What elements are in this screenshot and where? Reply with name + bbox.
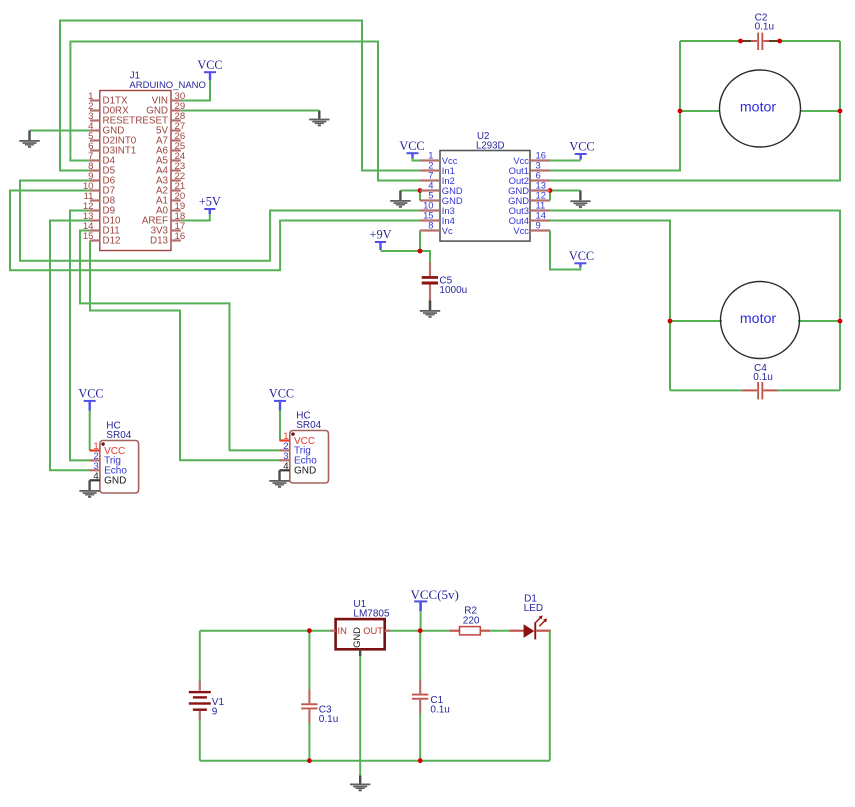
motor M2 — [721, 282, 800, 359]
wire VCC to sensor2 pin1 — [279, 410, 281, 441]
svg-text:VCC: VCC — [197, 58, 222, 72]
svg-text:VCC(5v): VCC(5v) — [411, 587, 459, 602]
ground at Arduino pin29 — [309, 111, 329, 127]
junction C1 bottom — [418, 758, 423, 763]
connector J1 ARDUINO_NANO — [100, 71, 206, 251]
wire Out2 to motor1 right rail — [549, 41, 840, 181]
wire Out4 to motor2 left rail — [549, 221, 670, 391]
svg-text:VCC: VCC — [399, 139, 424, 153]
J1 pin numbers — [83, 91, 186, 242]
svg-text:D12: D12 — [103, 236, 121, 247]
J1 pin labels — [103, 96, 169, 247]
wire Out3 to motor2 right rail — [549, 211, 840, 391]
capacitor C5 1000u polarized — [422, 262, 468, 301]
svg-text:16: 16 — [175, 231, 186, 242]
junction motor2 left — [668, 319, 673, 324]
wire D9 to Trig of first HC-SR04 — [70, 211, 90, 461]
ground at U1 GND — [350, 784, 370, 792]
wire D7 to In4 net — [10, 191, 421, 271]
junction motor2 right — [838, 319, 843, 324]
capacitor C4 0.1u — [742, 363, 778, 399]
wire power bottom rail — [200, 760, 550, 762]
capacitor C3 0.1u — [301, 631, 338, 761]
VCC supply at L293D pin1 — [399, 139, 424, 159]
wire motor2 right tap — [798, 320, 840, 322]
wire D1 cathode down to bottom rail — [549, 631, 551, 761]
wire VIN pin30 to VCC — [181, 79, 210, 101]
svg-text:IN: IN — [338, 625, 347, 636]
wire D6 to In3 net — [20, 181, 421, 261]
wire D5 to In1 net — [60, 21, 421, 171]
junction motor1 right — [838, 109, 843, 114]
svg-text:ARDUINO_NANO: ARDUINO_NANO — [129, 80, 206, 91]
wire U1 OUT to VCC node — [391, 630, 451, 632]
wire power left rail — [199, 631, 201, 761]
wire node to C5 — [420, 251, 430, 262]
J1 pin stubs — [90, 101, 181, 241]
wire VCC to L293D pin1 — [413, 158, 422, 161]
svg-text:220: 220 — [463, 615, 480, 626]
junction motor1 left — [678, 109, 683, 114]
VCC supply at VIN — [197, 58, 222, 80]
VCC supply at second HC-SR04 — [269, 387, 294, 411]
wire L293D GND pins 4,5 to ground — [400, 191, 420, 201]
svg-text:4: 4 — [283, 461, 289, 472]
wire R2 to D1 — [490, 630, 510, 632]
svg-text:L293D: L293D — [476, 141, 505, 152]
svg-text:Vcc: Vcc — [513, 225, 529, 236]
supply VCC(5v) — [411, 587, 459, 612]
U2 pin labels — [442, 155, 529, 236]
+9V supply — [370, 228, 392, 250]
wire D10 to Echo of first HC-SR04 — [50, 221, 90, 471]
svg-text:+9V: +9V — [370, 228, 392, 242]
svg-text:SR04: SR04 — [106, 430, 131, 441]
wire D4 to In2 net — [70, 42, 421, 181]
svg-text:0.1u: 0.1u — [755, 22, 774, 33]
junction L293D pins 4-5 GND — [418, 188, 423, 193]
svg-text:motor: motor — [740, 99, 777, 115]
svg-text:Vc: Vc — [442, 225, 453, 236]
svg-text:LED: LED — [524, 603, 543, 614]
wire Arduino GND pin4 to ground — [30, 130, 91, 132]
wire +9V to node — [381, 250, 421, 252]
svg-text:OUT: OUT — [363, 625, 383, 636]
wire motor1 top with C2 — [680, 40, 840, 42]
svg-text:+5V: +5V — [199, 195, 221, 209]
VCC supply at first HC-SR04 — [78, 387, 103, 411]
svg-text:VCC: VCC — [78, 387, 103, 401]
+5V supply — [199, 195, 221, 214]
wire motor1 left tap — [680, 110, 720, 112]
junction +9V node — [418, 249, 423, 254]
regulator U1 LM7805 — [330, 599, 391, 649]
svg-text:9: 9 — [212, 706, 218, 717]
wire L293D pin16 to VCC — [549, 160, 581, 162]
wire L293D GND pins 13,12 to ground — [550, 191, 580, 201]
svg-text:SR04: SR04 — [296, 420, 321, 431]
svg-text:4: 4 — [93, 471, 99, 482]
svg-text:GND: GND — [294, 466, 316, 477]
wire power top rail — [200, 630, 330, 632]
svg-text:GND: GND — [351, 627, 362, 648]
VCC supply at L293D pin9 — [569, 249, 594, 267]
ground at Arduino pin4 — [19, 131, 39, 148]
IC U2 L293D — [440, 131, 530, 241]
svg-text:1000u: 1000u — [439, 285, 467, 296]
svg-text:VCC: VCC — [569, 249, 594, 263]
junction C3 bottom — [307, 758, 312, 763]
ground at L293D right GND — [570, 191, 590, 209]
ground at sensor1 GND — [79, 480, 99, 498]
wire Out1 to motor1 left rail — [549, 41, 680, 171]
svg-text:LM7805: LM7805 — [353, 609, 390, 620]
sensor HC-SR04 #1 — [90, 420, 139, 493]
wire D12 to Echo of second HC-SR04 — [90, 241, 281, 461]
svg-text:GND: GND — [104, 476, 126, 487]
wire L293D Vc pin8 down to +9V node — [419, 231, 421, 252]
battery V1 9V — [189, 681, 225, 720]
capacitor C1 0.1u — [412, 631, 450, 761]
junction C1 top — [418, 628, 423, 633]
svg-text:15: 15 — [83, 231, 94, 242]
ground at C5 — [420, 301, 440, 318]
svg-text:0.1u: 0.1u — [430, 704, 449, 715]
svg-text:D13: D13 — [150, 236, 169, 247]
junction C2 right — [777, 39, 782, 44]
wire AREF pin18 to +5V — [181, 212, 210, 221]
ground at L293D left GND — [390, 191, 410, 208]
svg-text:motor: motor — [740, 311, 777, 327]
wire motor2 bottom with C4 — [670, 389, 840, 391]
LED D1 — [510, 594, 551, 640]
wire Arduino GND pin29 to ground — [181, 110, 319, 112]
wire D11 to Trig of second HC-SR04 — [80, 231, 281, 451]
sensor HC-SR04 #2 — [280, 410, 329, 483]
wire VCC(5v) stem — [420, 611, 422, 630]
U2 pin stubs — [420, 161, 550, 231]
wire U1 GND to ground — [359, 649, 361, 783]
capacitor C2 0.1u — [742, 12, 778, 50]
svg-text:VCC: VCC — [569, 140, 594, 154]
svg-text:8: 8 — [428, 220, 433, 231]
resistor R2 220 — [450, 606, 490, 635]
junction L293D pins 13-12 GND — [548, 188, 553, 193]
wire VCC to sensor1 pin1 — [89, 410, 91, 451]
junction C3 top — [307, 628, 312, 633]
wire motor1 right tap — [800, 110, 840, 112]
wire motor2 left tap — [670, 320, 722, 322]
svg-text:9: 9 — [536, 220, 541, 231]
motor M1 — [720, 70, 801, 147]
svg-text:0.1u: 0.1u — [753, 372, 772, 383]
ground at sensor2 GND — [269, 470, 289, 488]
VCC supply at L293D pin16 — [569, 140, 594, 160]
U2 pin numbers — [423, 150, 546, 231]
junction C2 left — [738, 39, 743, 44]
svg-text:0.1u: 0.1u — [319, 714, 338, 725]
svg-text:VCC: VCC — [269, 387, 294, 401]
wire L293D pin9 to VCC — [550, 231, 580, 270]
